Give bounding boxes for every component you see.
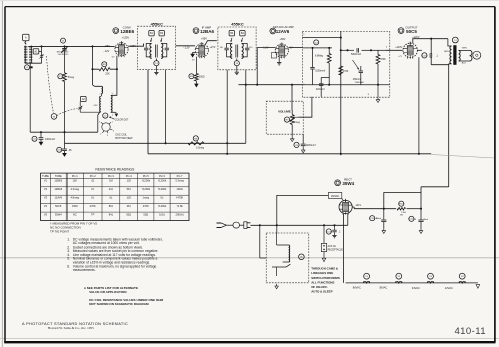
- AUX AC receptacle: [323, 225, 325, 243]
- output transformer T4 circled label: [452, 37, 458, 43]
- heater end arrow: [476, 285, 480, 289]
- det box internal ground: [377, 85, 379, 97]
- switch coil: [289, 245, 290, 262]
- line cap C13 .1: [326, 229, 331, 234]
- wire T4 sec to speaker: [459, 50, 470, 61]
- switch circled label M2: [299, 254, 305, 260]
- svg-text:+110V: +110V: [395, 46, 402, 49]
- T3 primary coil: [231, 44, 233, 59]
- wire det box top rail: [302, 37, 341, 39]
- T4 secondary coil: [459, 50, 461, 61]
- T2 core: [155, 45, 157, 58]
- wire detector line: [239, 84, 303, 86]
- T3 ground: [236, 66, 238, 71]
- svg-text:2: 2: [100, 134, 101, 136]
- wire 5meg column down: [64, 132, 66, 143]
- capacitor C6 220mmf: [321, 78, 329, 84]
- svg-text:30mf: 30mf: [423, 219, 428, 221]
- surge resistor R10: [399, 201, 404, 206]
- svg-text:+65V: +65V: [280, 38, 286, 41]
- resistor R1 5meg: [64, 50, 66, 73]
- T4 core: [453, 45, 456, 65]
- label V3 DET-AVC-AF AMP 12AV6: [270, 28, 276, 34]
- capacitor C10 .1: [422, 53, 427, 58]
- svg-text:220mmf: 220mmf: [316, 88, 325, 91]
- svg-text:3.3meg: 3.3meg: [175, 179, 184, 183]
- V3 ground: [278, 57, 280, 61]
- wire det corner down: [245, 85, 247, 144]
- svg-text:Pin 5: Pin 5: [143, 174, 149, 178]
- wire antenna top bus: [28, 45, 114, 47]
- clock switch dashed box: [266, 233, 309, 283]
- wire antenna bottom: [25, 62, 41, 64]
- heater V1: [364, 273, 370, 279]
- osc transformer T1: [100, 96, 101, 111]
- svg-text:1: 1: [112, 122, 113, 124]
- trimmer A1: [33, 49, 39, 54]
- T2 primary coil: [150, 44, 152, 59]
- T3 primary cap: [227, 44, 233, 48]
- svg-text:RECEPTACLE: RECEPTACLE: [328, 249, 344, 252]
- filter cap C11 A 50mmf: [370, 216, 375, 221]
- B+ line from V5: [352, 207, 396, 209]
- svg-text:100Ω: 100Ω: [176, 187, 182, 191]
- wire V3 grid left: [257, 48, 275, 85]
- svg-text:3: 3: [107, 135, 108, 137]
- svg-text:4: 4: [112, 115, 113, 117]
- svg-text:160VAC: 160VAC: [331, 195, 340, 198]
- AC plug: [217, 223, 222, 228]
- svg-text:12BE6: 12BE6: [120, 29, 134, 34]
- wire center vertical: [340, 31, 342, 155]
- B+ bus wire: [148, 70, 431, 154]
- svg-text:+27V: +27V: [210, 46, 216, 49]
- antenna coil tap label (11): [25, 65, 30, 70]
- svg-text:†1200k: †1200k: [158, 179, 167, 183]
- svg-text:M: M: [53, 116, 55, 118]
- svg-text:6.8Meg: 6.8Meg: [315, 55, 324, 58]
- T3 secondary cap: [242, 44, 248, 48]
- svg-text:470K: 470K: [143, 204, 149, 208]
- svg-text:TUBULAR: TUBULAR: [355, 81, 365, 84]
- T2 slug labels: [149, 31, 154, 36]
- svg-text:BOTTOM VIEW: BOTTOM VIEW: [115, 137, 133, 140]
- tube V5 35W4: [339, 200, 352, 213]
- fold crease line: [0, 257, 499, 259]
- T1 circled label: [103, 113, 108, 118]
- heater V4: [459, 273, 465, 279]
- svg-text:12AV6: 12AV6: [276, 29, 290, 34]
- svg-text:†1200k: †1200k: [158, 204, 167, 208]
- svg-text:1: 1: [100, 94, 101, 96]
- svg-text:470K: 470K: [380, 58, 386, 61]
- B+ U link: [384, 187, 421, 209]
- svg-text:NC: NC: [73, 213, 77, 217]
- svg-text:24‡: 24‡: [109, 187, 114, 191]
- wire T3 down to AVC bus: [226, 70, 228, 154]
- wire AC to 160VAC: [277, 195, 329, 233]
- svg-text:†1200k: †1200k: [142, 187, 151, 191]
- svg-text:TUBE: TUBE: [55, 174, 62, 178]
- svg-text:+7V: +7V: [398, 56, 402, 58]
- wire wiper to det box: [298, 97, 312, 117]
- label V5 RECT 35W4: [335, 180, 341, 186]
- T1 ground: [111, 111, 117, 113]
- svg-text:35W4: 35W4: [342, 181, 354, 186]
- svg-text:AUX AC: AUX AC: [328, 245, 337, 248]
- gang motor M: [51, 114, 57, 120]
- T2 secondary tuning cap: [161, 44, 167, 48]
- tube V2 12BA6: [195, 44, 208, 57]
- svg-text:470K: 470K: [343, 70, 349, 73]
- svg-text:36‡: 36‡: [127, 204, 132, 208]
- svg-text:4.3meg: 4.3meg: [70, 187, 79, 191]
- T3 core: [236, 45, 238, 58]
- wire pot bottom to ground: [291, 125, 293, 137]
- svg-text:3.3meg: 3.3meg: [196, 147, 205, 150]
- svg-text:.01: .01: [91, 179, 95, 183]
- svg-text:1meg: 1meg: [294, 121, 301, 124]
- IF transformer T3 455KC dashed box: [218, 27, 256, 70]
- svg-text:410-11: 410-11: [454, 326, 486, 337]
- wire det box mid rail: [302, 47, 332, 49]
- svg-text:1M: 1M: [109, 179, 113, 183]
- capacitor C2 1000mmf: [32, 136, 37, 141]
- svg-text:455KC: 455KC: [231, 22, 244, 27]
- svg-text:4: 4: [113, 130, 114, 132]
- wire V1 plate to IF1: [128, 44, 143, 47]
- svg-text:6.: 6.: [67, 264, 70, 268]
- T2 primary tuning cap: [146, 44, 151, 48]
- wire T2 sec to V2 grid: [161, 44, 167, 46]
- T4 primary coil: [448, 39, 452, 46]
- svg-text:†470K: †470K: [176, 196, 184, 200]
- svg-text:1000mmf: 1000mmf: [45, 138, 55, 141]
- V3 diode plates box: [271, 53, 276, 58]
- svg-text:5: 5: [112, 93, 113, 95]
- svg-text:50C5: 50C5: [406, 29, 417, 34]
- svg-text:12BE6: 12BE6: [54, 179, 62, 183]
- svg-text:COLOR DOT: COLOR DOT: [115, 119, 129, 121]
- svg-text:Pin 7: Pin 7: [177, 174, 183, 178]
- T2 secondary coil: [161, 44, 163, 59]
- svg-text:TUBE: TUBE: [42, 174, 49, 178]
- svg-text:+125V: +125V: [122, 37, 130, 40]
- svg-text:†1200k: †1200k: [142, 179, 151, 183]
- osc feedback coil L2: [102, 86, 103, 93]
- label 160VAC box: [328, 192, 341, 198]
- svg-text:4.8meg: 4.8meg: [70, 196, 79, 200]
- svg-text:22K: 22K: [105, 73, 110, 76]
- wire osc pin2 drop: [98, 112, 100, 133]
- svg-text:M: M: [300, 257, 302, 259]
- capacitor C5 1000mmf: [312, 48, 314, 67]
- pot wiper arrow: [290, 117, 298, 122]
- dashed gang link: [47, 56, 54, 113]
- svg-text:−1.2V: −1.2V: [183, 46, 190, 49]
- svg-text:1000mmf: 1000mmf: [315, 70, 325, 73]
- svg-text:V3: V3: [44, 196, 48, 200]
- svg-text:120: 120: [127, 196, 132, 200]
- filter cap C12 B 30mmf: [409, 216, 414, 221]
- wire det out to V4 grid: [386, 49, 403, 51]
- heater string wire: [346, 282, 478, 284]
- wire pot top from det line: [291, 85, 293, 110]
- svg-text:35W4: 35W4: [55, 213, 62, 217]
- coupling capacitor C7 5000mmf: [341, 49, 354, 51]
- resistor R6 470K grid: [370, 49, 372, 51]
- svg-text:LINKAGES ONE: LINKAGES ONE: [311, 271, 333, 275]
- label V1 CONV 12BE6: [113, 28, 119, 34]
- svg-text:V4: V4: [44, 204, 48, 208]
- svg-text:121V: 121V: [355, 204, 361, 207]
- capacitor C3 .05: [57, 147, 62, 152]
- tuning gang capacitor B: [61, 38, 66, 43]
- svg-text:12BA6: 12BA6: [54, 187, 62, 191]
- circled label C4: [314, 40, 319, 45]
- svg-text:100Ω: 100Ω: [199, 75, 205, 78]
- antenna terminal A: [23, 34, 29, 40]
- AVC bus wire: [65, 142, 246, 144]
- V2 cathode ground: [193, 53, 196, 54]
- svg-text:VOLUME: VOLUME: [278, 109, 291, 113]
- svg-text:50Ω: 50Ω: [143, 213, 148, 217]
- svg-text:1500: 1500: [72, 204, 78, 208]
- svg-text:−12V: −12V: [103, 50, 109, 53]
- svg-text:5meg: 5meg: [68, 76, 75, 79]
- svg-text:12AV6: 12AV6: [54, 196, 62, 200]
- speaker SP: [473, 51, 481, 59]
- tone cap C8 250mmf with arrow: [353, 60, 360, 70]
- svg-text:12VAC: 12VAC: [445, 286, 453, 290]
- svg-text:TP TIE POINT: TP TIE POINT: [50, 230, 69, 234]
- svg-text:12K: 12K: [72, 179, 77, 183]
- svg-text:20K(A): 20K(A): [176, 213, 184, 217]
- wire 160VAC to V5 plate: [342, 198, 344, 200]
- svg-text:BRN: BRN: [444, 51, 449, 53]
- V4 cathode resistor R8: [418, 57, 420, 154]
- svg-text:Pin 1: Pin 1: [72, 174, 78, 178]
- grid return bus wire: [30, 131, 98, 133]
- heater V2: [396, 273, 402, 279]
- wire T3 sec down to det line: [245, 70, 247, 85]
- svg-text:36VAC: 36VAC: [379, 286, 387, 290]
- wire det box bottom rail: [302, 84, 390, 86]
- tube V1 12BE6: [115, 43, 128, 56]
- svg-text:Pin 3: Pin 3: [108, 174, 114, 178]
- wire V3 out to det box: [288, 47, 302, 49]
- svg-text:1meg: 1meg: [143, 196, 150, 200]
- wire antenna return down: [29, 64, 31, 133]
- resistor R9 3.3meg on AVC bus: [193, 136, 198, 141]
- label V2 IF AMP 12BA6: [193, 28, 199, 34]
- COLOR DOT note: [109, 116, 111, 118]
- svg-text:TP: TP: [91, 213, 95, 217]
- svg-text:470K: 470K: [90, 204, 96, 208]
- B+ top link to output: [421, 186, 449, 188]
- svg-text:5: 5: [99, 122, 100, 124]
- IF transformer T2 455KC dashed box: [138, 26, 176, 69]
- loop antenna L1: [25, 46, 31, 64]
- svg-text:34VAC: 34VAC: [412, 286, 420, 290]
- svg-text:1.: 1.: [67, 237, 70, 241]
- wire V5 pin to AC line: [347, 214, 349, 225]
- svg-text:OF ON-OFF-: OF ON-OFF-: [311, 285, 328, 289]
- heater V3: [428, 273, 434, 279]
- resistor R4 6.8meg: [328, 48, 330, 54]
- wire B+ feed down from T2: [165, 70, 167, 144]
- svg-text:100‡: 100‡: [159, 213, 165, 217]
- svg-text:120: 120: [127, 179, 132, 183]
- speaker voice coil: [470, 50, 472, 61]
- trimmer A2: [81, 96, 87, 101]
- svg-text:OSC: OSC: [94, 105, 99, 107]
- svg-text:Pin 6: Pin 6: [159, 174, 165, 178]
- switch ground: [276, 284, 278, 287]
- svg-text:ALL FUNCTIONS: ALL FUNCTIONS: [311, 280, 334, 284]
- tube V3 12AV6: [275, 44, 288, 57]
- svg-text:measurements.: measurements.: [73, 268, 96, 272]
- capacitor C9 1000mmf: [294, 142, 299, 147]
- switch arm: [276, 233, 278, 245]
- svg-text:50C5: 50C5: [55, 204, 62, 208]
- svg-text:V2: V2: [44, 187, 48, 191]
- T3 bottom circled label: [236, 59, 238, 61]
- wire V4 plate up: [413, 39, 448, 44]
- svg-text:50mf: 50mf: [376, 218, 381, 220]
- tube V4 50C5: [403, 43, 417, 57]
- svg-text:AUTO & SLEEP: AUTO & SLEEP: [311, 290, 332, 294]
- svg-text:V5: V5: [44, 213, 48, 217]
- volume control dashed box: [266, 101, 303, 134]
- wire grid drop: [93, 46, 102, 86]
- svg-text:50Ω: 50Ω: [126, 213, 131, 217]
- svg-text:RESISTANCE READINGS: RESISTANCE READINGS: [95, 167, 135, 171]
- svg-text:V1: V1: [44, 179, 48, 183]
- wire V4 screen right: [417, 49, 422, 51]
- svg-text:†1200k: †1200k: [158, 187, 167, 191]
- resistor R3 100K cathode: [195, 57, 197, 74]
- T3 secondary coil: [242, 44, 244, 59]
- resistor R2 22K: [112, 56, 117, 96]
- svg-text:VALUE OR APPLICATION: VALUE OR APPLICATION: [89, 290, 127, 294]
- svg-text:BLK: BLK: [462, 63, 467, 65]
- svg-text:†1.8k: †1.8k: [176, 204, 183, 208]
- svg-text:455KC: 455KC: [151, 21, 164, 26]
- resistor R5 470K: [339, 66, 343, 75]
- svg-text:2W: 2W: [400, 215, 403, 217]
- svg-text:1000mmf: 1000mmf: [306, 144, 316, 147]
- svg-text:Pin 2: Pin 2: [90, 174, 96, 178]
- svg-text:86VAC: 86VAC: [353, 286, 361, 290]
- volume pot R7: [284, 117, 289, 122]
- wire V5 heater drop: [342, 214, 344, 283]
- T2 ground: [155, 66, 157, 71]
- border frame: [5, 6, 495, 8]
- wire T4 primary bottom down: [449, 64, 452, 187]
- svg-text:THROUGH CAMS &: THROUGH CAMS &: [311, 267, 338, 271]
- svg-text:12BA6: 12BA6: [200, 29, 215, 34]
- V2 plate to IF2: [206, 41, 217, 45]
- svg-text:+95V: +95V: [201, 37, 207, 40]
- svg-text:56‡: 56‡: [127, 187, 132, 191]
- detector network dashed box: [302, 31, 390, 97]
- svg-text:250mmf: 250mmf: [353, 79, 362, 81]
- svg-text:SWITCH PERFORMS: SWITCH PERFORMS: [311, 276, 340, 280]
- svg-text:5.: 5.: [67, 257, 70, 261]
- svg-text:NOT SHOWN ON SCHEMATIC DIAGRAM: NOT SHOWN ON SCHEMATIC DIAGRAM: [89, 302, 149, 306]
- svg-text:5000mmf: 5000mmf: [351, 53, 361, 56]
- svg-text:Pin 4: Pin 4: [126, 174, 132, 178]
- svg-text:84‡: 84‡: [109, 213, 114, 217]
- wire R4 bottom join: [328, 70, 330, 78]
- svg-text:A PHOTOFACT STANDARD NOTATI: A PHOTOFACT STANDARD NOTATION SCHEMATIC: [22, 321, 128, 326]
- osc coil bottom view: [102, 123, 110, 131]
- svg-text:GRN: GRN: [462, 48, 467, 50]
- svg-text:86‡: 86‡: [109, 204, 114, 208]
- T2 bottom circled label: [155, 59, 157, 61]
- wire AC line routing: [250, 224, 347, 226]
- svg-text:OSC COIL: OSC COIL: [115, 133, 127, 136]
- wire screen drop: [431, 39, 449, 65]
- svg-text:+85V: +85V: [104, 45, 110, 48]
- svg-text:540-1620KC: 540-1620KC: [58, 54, 69, 56]
- label V4 OUTPUT 50C5: [398, 28, 404, 34]
- T3 slug labels: [229, 31, 234, 36]
